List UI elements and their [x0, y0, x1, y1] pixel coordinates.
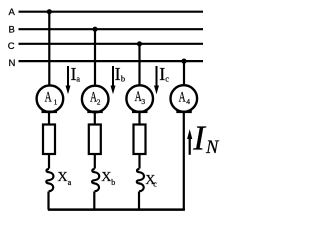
- svg-text:a: a: [68, 178, 72, 187]
- svg-text:2: 2: [97, 98, 101, 107]
- svg-text:b: b: [121, 74, 125, 84]
- svg-text:A: A: [45, 90, 52, 106]
- svg-text:I: I: [115, 64, 121, 84]
- svg-text:N: N: [9, 58, 16, 69]
- svg-text:1: 1: [54, 97, 58, 106]
- svg-text:A: A: [9, 7, 16, 18]
- svg-text:B: B: [9, 24, 15, 35]
- svg-text:X: X: [58, 170, 68, 185]
- svg-text:c: c: [153, 179, 157, 188]
- svg-text:a: a: [76, 74, 80, 84]
- svg-text:C: C: [8, 41, 15, 52]
- svg-text:4: 4: [186, 97, 190, 106]
- svg-text:b: b: [111, 178, 115, 187]
- svg-text:N: N: [205, 138, 220, 158]
- svg-text:A: A: [179, 90, 186, 106]
- svg-text:3: 3: [141, 97, 145, 106]
- svg-text:c: c: [165, 74, 169, 84]
- svg-text:X: X: [101, 170, 111, 185]
